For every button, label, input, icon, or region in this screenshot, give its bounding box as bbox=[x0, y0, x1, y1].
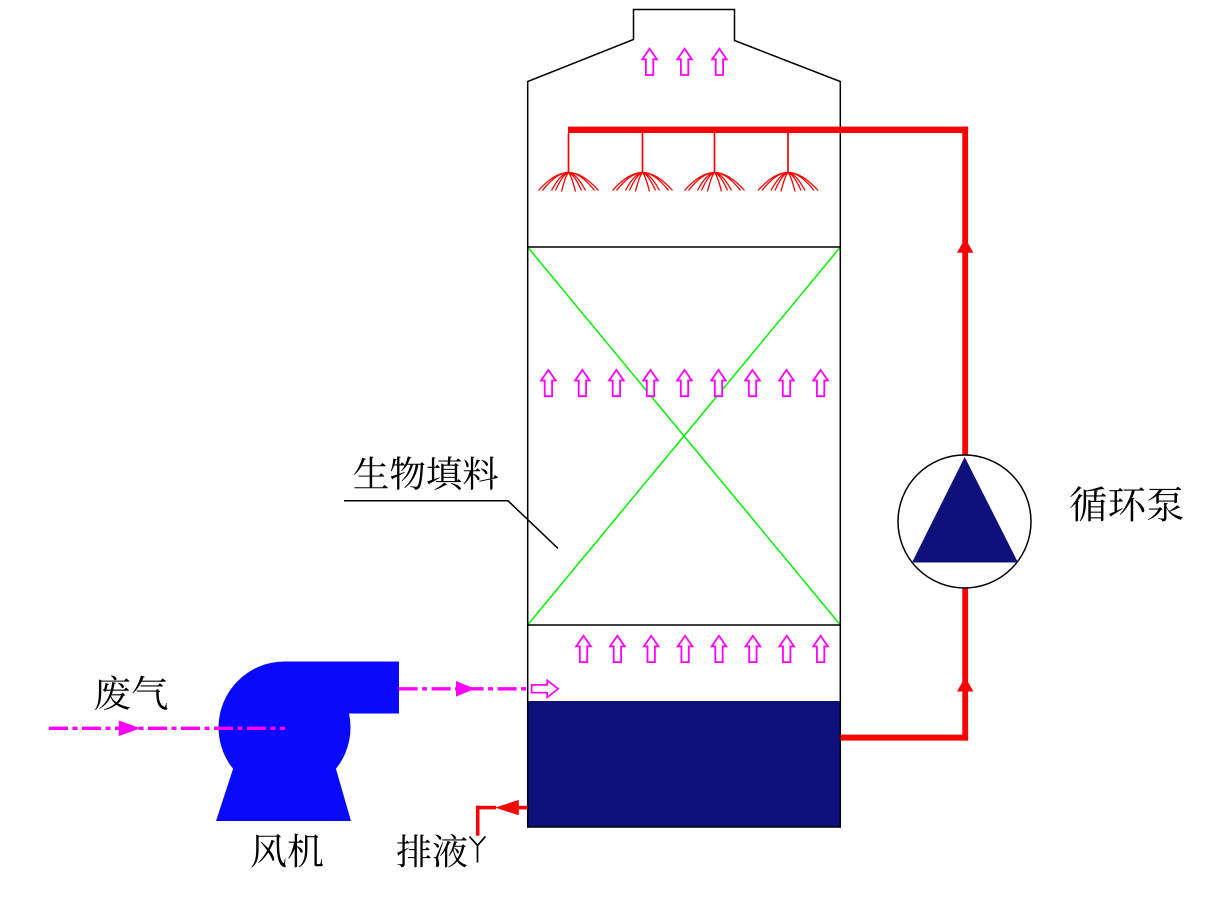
label 生物填料 bbox=[354, 456, 498, 490]
spray header pipe bbox=[568, 127, 968, 133]
label 循环泵 bbox=[1070, 486, 1183, 521]
packing bottom line bbox=[528, 624, 841, 626]
waste gas inlet arrow bbox=[119, 721, 141, 737]
drain arrow bbox=[495, 800, 519, 815]
label 排液 bbox=[397, 834, 467, 867]
pump suction horizontal pipe bbox=[841, 735, 969, 741]
spray nozzle stems bbox=[569, 133, 789, 173]
label 废气 bbox=[95, 675, 167, 710]
packing top line bbox=[528, 246, 841, 248]
recirculation riser pipe bbox=[962, 127, 968, 741]
drain outlet Y symbol bbox=[470, 837, 486, 863]
gas arrows bottom row bbox=[576, 636, 828, 662]
label 风机 bbox=[251, 834, 323, 868]
spray umbrella 2 bbox=[613, 173, 673, 192]
spray umbrella 1 bbox=[539, 173, 599, 192]
label leader line bbox=[344, 501, 558, 549]
drain stub to tank bbox=[519, 806, 528, 810]
pump circle U1 bbox=[898, 455, 1031, 588]
spray umbrella 4 bbox=[758, 173, 818, 192]
gas arrows middle row bbox=[541, 370, 828, 396]
flow arrow lower riser bbox=[957, 677, 973, 692]
pump impeller triangle bbox=[912, 457, 1018, 563]
flow arrow upper riser bbox=[957, 238, 973, 252]
packing cross brace X bbox=[528, 248, 840, 625]
fan outlet arrow bbox=[456, 681, 475, 697]
liquid tank sump bbox=[528, 701, 841, 827]
tower inlet hollow arrow bbox=[532, 680, 559, 697]
drain pipe horizontal bbox=[476, 806, 496, 810]
spray umbrella 3 bbox=[685, 173, 745, 192]
drain pipe vertical bbox=[476, 806, 480, 836]
fan outlet dash line bbox=[399, 687, 528, 690]
gas arrows top row bbox=[642, 49, 726, 75]
tower shell outline bbox=[528, 10, 841, 828]
fan blower body bbox=[216, 662, 399, 822]
waste gas inlet dash line bbox=[49, 727, 285, 730]
